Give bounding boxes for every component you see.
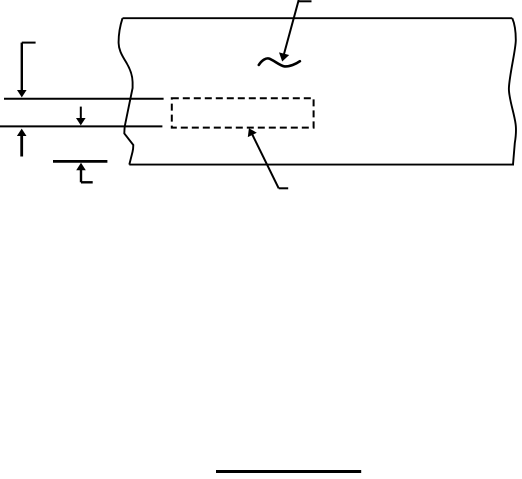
- leader to surface: tail: [299, 0, 312, 2]
- dimension 1 shaft: [21, 43, 23, 91]
- dimension 4 bar: [53, 160, 107, 163]
- caption underline: [216, 470, 361, 473]
- leader to dashed area: tail: [279, 187, 289, 189]
- leader to dashed area: arrowhead (up-left): [248, 128, 257, 137]
- extension line upper: [4, 98, 164, 100]
- leader to dashed area: line: [252, 135, 278, 189]
- dimension 4 shaft: [80, 169, 82, 182]
- dimension 2 shaft (middle down arrow): [80, 107, 82, 119]
- dashed rectangle (marking location): [172, 98, 314, 127]
- surface squiggle: [259, 58, 300, 66]
- panel left break line: [119, 18, 134, 164]
- dimension 1 arrowhead (down): [17, 90, 27, 97]
- dimension 4 tail: [81, 181, 93, 183]
- leader to surface: arrowhead: [279, 52, 289, 61]
- dimension 3 arrowhead (up): [17, 129, 27, 136]
- extension line lower: [0, 125, 162, 127]
- dimension 2 arrowhead (down): [76, 118, 86, 125]
- leader to surface: line: [284, 0, 299, 54]
- panel bottom edge: [129, 164, 514, 166]
- dimension 3 shaft (left up arrow): [20, 135, 23, 157]
- panel right break line: [509, 18, 516, 164]
- dimension 4 arrowhead (up): [76, 163, 86, 170]
- panel top edge: [123, 17, 513, 19]
- dimension 1 leader tail: [22, 42, 36, 44]
